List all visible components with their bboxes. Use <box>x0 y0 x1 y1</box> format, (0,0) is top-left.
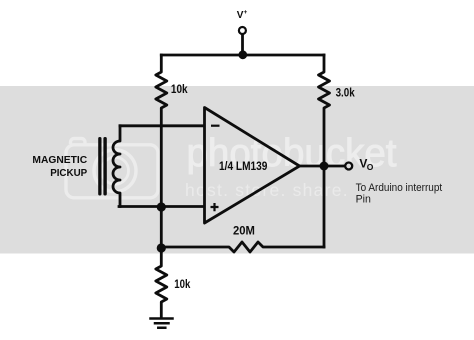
resistor R3 20M feedback <box>161 242 324 252</box>
junction dot output node <box>320 162 329 171</box>
svg-text:MAGNETIC: MAGNETIC <box>32 155 87 166</box>
wire output <box>300 165 345 168</box>
ground <box>151 319 173 328</box>
op-amp plus sign <box>211 203 219 211</box>
label To Arduino interrupt Pin <box>356 182 443 206</box>
op-amp minus sign <box>211 125 220 127</box>
watermark camera icon <box>66 139 158 198</box>
wire top rail <box>161 54 324 57</box>
op-amp U1 triangle <box>205 108 300 224</box>
svg-text:V+: V+ <box>237 9 248 21</box>
resistor R1 10k left branch <box>156 55 167 318</box>
svg-text:PICKUP: PICKUP <box>50 168 87 179</box>
junction dot at V+ <box>238 50 247 59</box>
svg-text:20M: 20M <box>233 223 255 237</box>
junction dot non-inverting node <box>157 202 166 211</box>
svg-text:10k: 10k <box>171 82 188 96</box>
wire non-inverting input <box>119 205 204 208</box>
terminal V+ open circle <box>239 27 246 34</box>
resistor R2 3.0k right branch <box>319 55 330 247</box>
svg-text:To Arduino interrupt: To Arduino interrupt <box>356 182 443 194</box>
wire inverting input <box>120 124 204 127</box>
magnetic pickup core bar 1 <box>98 137 101 196</box>
svg-text:Pin: Pin <box>356 194 371 206</box>
junction dot feedback node <box>157 243 166 252</box>
svg-text:10k: 10k <box>174 277 190 291</box>
inductor coil of magnetic pickup <box>113 126 120 207</box>
svg-text:1/4 LM139: 1/4 LM139 <box>219 160 268 173</box>
terminal Vo open circle <box>345 163 352 170</box>
magnetic pickup core bar 2 <box>103 137 106 196</box>
svg-text:3.0k: 3.0k <box>336 85 355 99</box>
wire V+ stem <box>241 33 244 55</box>
watermark band <box>0 86 474 254</box>
